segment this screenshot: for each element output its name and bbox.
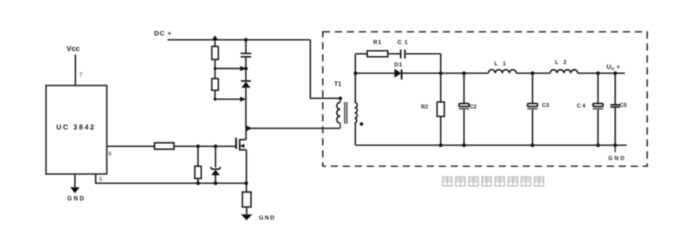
resistor R1 — [356, 40, 388, 57]
diode (clamp, pointing up) — [241, 69, 251, 129]
svg-text:C5: C5 — [620, 103, 627, 109]
svg-text:R2: R2 — [421, 105, 428, 111]
svg-text:5: 5 — [99, 177, 102, 183]
svg-text:6: 6 — [108, 152, 111, 158]
transistor Q1 MOSFET — [236, 128, 246, 192]
svg-text:GND: GND — [608, 156, 626, 162]
svg-text:GND: GND — [67, 197, 85, 203]
ground (source) — [241, 214, 276, 221]
wire connector lower — [215, 98, 240, 100]
svg-text:D1: D1 — [394, 63, 403, 69]
svg-text:DC +: DC + — [154, 31, 172, 38]
ground (output GND) — [608, 145, 626, 162]
svg-text:C 1: C 1 — [398, 40, 409, 46]
svg-text:T1: T1 — [334, 81, 342, 88]
wire output top rail — [441, 72, 625, 74]
capacitor C5 — [610, 71, 626, 147]
svg-text:L 1: L 1 — [494, 62, 507, 68]
svg-text:C 4: C 4 — [577, 104, 587, 110]
wire drain to primary — [246, 127, 340, 129]
transformer T1 — [334, 81, 363, 128]
svg-text:C2: C2 — [470, 105, 477, 111]
wire secondary bottom — [354, 123, 356, 145]
wire connector upper — [215, 68, 240, 70]
node D1 anode — [354, 71, 358, 75]
node primary polarity dot — [339, 97, 342, 100]
node rail junction 2 — [214, 181, 218, 185]
wire pin 6 to gate — [107, 145, 236, 147]
resistor (gate series) — [155, 143, 175, 149]
svg-text:7: 7 — [79, 73, 82, 79]
node rail junction 1 — [196, 181, 200, 185]
junction arrow (startup branch) — [212, 35, 219, 40]
svg-text:UC 3842: UC 3842 — [56, 125, 96, 132]
junction arrow (drain node) — [246, 126, 252, 132]
wire to ground — [246, 207, 248, 214]
resistor (startup upper) — [212, 40, 219, 78]
capacitor C1 — [388, 40, 441, 73]
IC U1 UC3842 — [46, 86, 107, 175]
capacitor (clamp) — [241, 40, 252, 69]
resistor R2 — [421, 73, 444, 145]
capacitor C3 (electrolytic) — [527, 71, 549, 147]
caption 输出整流滤波电路 (faint) — [443, 177, 544, 186]
diode D1 — [356, 63, 441, 80]
node Vcc — [66, 44, 79, 53]
ground (IC GND) — [67, 174, 85, 203]
output filter dashed box — [323, 32, 647, 166]
svg-text:L 2: L 2 — [555, 60, 568, 66]
node gate-divider junction 2 — [214, 145, 218, 149]
capacitor C2 (electrolytic) — [459, 71, 477, 147]
node gate-divider junction 1 — [196, 145, 200, 149]
node DC+ / clamp branch — [244, 38, 248, 42]
wire output bottom rail — [356, 144, 627, 146]
zener (gate protection) — [210, 146, 220, 183]
wire secondary top — [354, 54, 356, 103]
wire DC+ rail — [168, 39, 311, 41]
capacitor C4 (electrolytic) — [577, 71, 603, 147]
svg-text:C3: C3 — [542, 103, 549, 109]
node D1 cathode / R2 top — [439, 71, 443, 75]
node R2 bottom — [439, 143, 443, 147]
wire pin 5 rail — [96, 174, 247, 183]
resistor (gate pulldown) — [195, 146, 201, 183]
svg-text:R1: R1 — [373, 40, 382, 46]
svg-text:GND: GND — [259, 215, 275, 221]
svg-text:Vcc: Vcc — [66, 44, 79, 53]
inductor L1 — [488, 62, 516, 74]
node clamp junction — [244, 67, 248, 71]
wire DC+ drop to primary — [310, 40, 340, 99]
resistor (source sense) — [242, 192, 251, 207]
node rail-source junction — [244, 181, 248, 185]
resistor (startup lower) — [212, 79, 219, 100]
wire Vcc to pin 7 — [74, 55, 76, 86]
inductor L2 — [550, 60, 578, 73]
